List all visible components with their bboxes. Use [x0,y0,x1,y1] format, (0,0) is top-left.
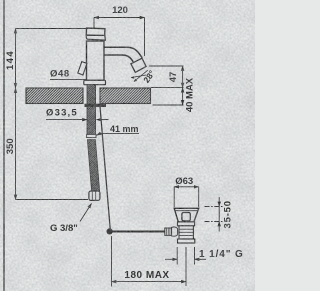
dimension 350 left [5,88,88,200]
angle 28 degrees annotation [131,68,157,85]
counter slab left part [26,88,83,104]
scan noise overlay [0,0,255,291]
dimension 120 top [94,5,145,56]
left frame border [3,0,5,291]
spout [104,47,142,58]
hose end nut G3/8 [89,191,100,200]
faucet base [84,80,106,84]
drain plug square knob [182,213,190,221]
aerator tip [131,58,146,72]
label G 3/8 with leader [50,204,92,235]
drain flange [178,222,195,226]
pop-up rod vertical [100,104,110,229]
locknut under counter [85,104,107,107]
dimension 180 MAX bottom [112,236,187,287]
dimension Ø33,5 [46,108,109,120]
dimension 40 MAX right [153,77,196,112]
faucet body [87,41,105,80]
dimension 47 right [149,66,184,88]
label 41 mm with leader [97,124,140,135]
dimension 35-50 [205,197,234,232]
faucet handle [86,28,105,40]
dimension Ø63 [174,176,199,207]
counter slab right part [100,88,151,104]
drain bottom cap [178,239,195,243]
side pop-up knob [78,62,87,75]
drain flare (funnel) [174,208,199,222]
drain body with threads [179,226,193,239]
label Ø48 with leader [50,69,87,80]
pop-up rod horizontal [111,231,166,233]
paper background [0,0,255,291]
drain left fitting knurled nut [165,228,172,235]
drain fitting cone [172,227,178,236]
rod ball joint [107,228,113,234]
flexible hose (braided) [87,140,99,191]
dimension 144 left [5,29,88,89]
threaded shank through slab [87,85,96,138]
dimension 1 1/4 G tailpipe [165,247,244,286]
